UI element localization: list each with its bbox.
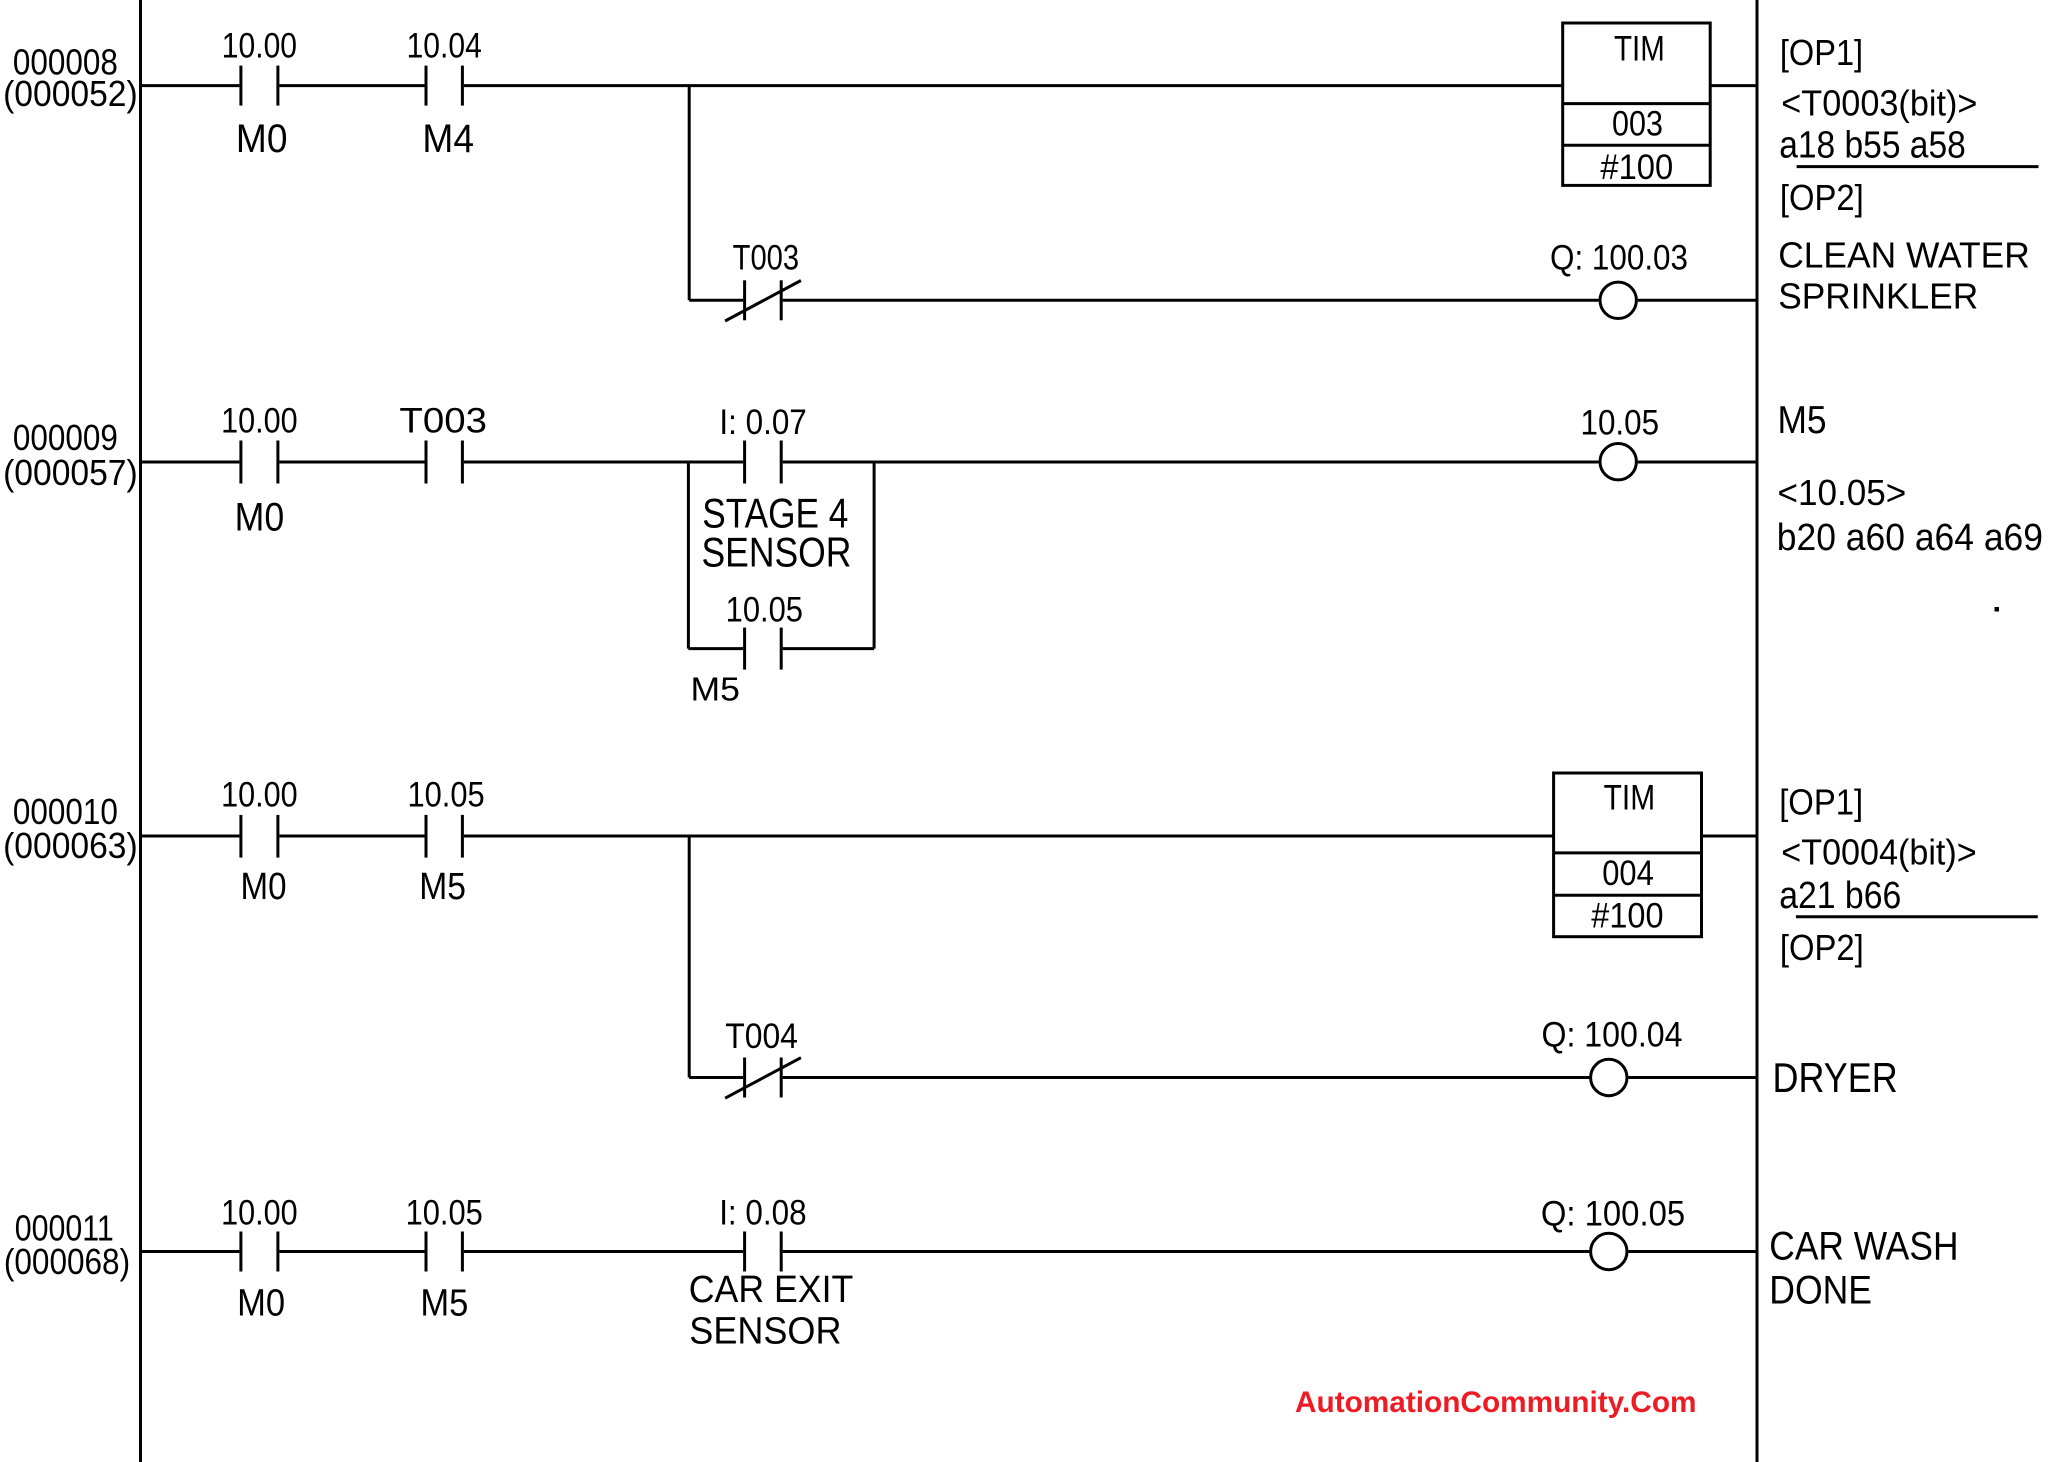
svg-text:003: 003 — [1612, 104, 1663, 143]
svg-text:#100: #100 — [1600, 148, 1673, 187]
stray dot — [1995, 607, 2000, 612]
svg-text:[OP1]: [OP1] — [1780, 32, 1863, 73]
svg-text:<10.05>: <10.05> — [1778, 472, 1907, 513]
wire rung1 coil to right rail — [1638, 299, 1757, 302]
svg-text:10.05: 10.05 — [1581, 404, 1660, 443]
svg-text:M0: M0 — [237, 1282, 285, 1324]
coil 10.05 M5 rung2 — [1600, 444, 1636, 480]
wire rung4 coil to right rail — [1628, 1250, 1757, 1253]
contact 10.05 M5 rung2 parallel (NO) — [743, 628, 746, 670]
wire rung3 branch horizontal to T004 — [689, 1076, 743, 1079]
svg-text:M0: M0 — [236, 117, 288, 161]
left power rail — [139, 0, 142, 1462]
wire rung3 between contacts — [279, 835, 424, 838]
svg-text:a21 b66: a21 b66 — [1779, 875, 1901, 917]
wire rung3 coil to right rail — [1628, 1076, 1757, 1079]
wire rung2 parallel branch left vertical — [687, 462, 690, 649]
svg-text:[OP2]: [OP2] — [1780, 177, 1864, 218]
coil Q: 100.04 DRYER — [1591, 1059, 1627, 1095]
svg-text:10.00: 10.00 — [221, 776, 298, 815]
wire rung4 contact to coil Q100.05 — [783, 1250, 1590, 1253]
underline OP divider rung3 — [1796, 915, 2038, 918]
svg-text:M0: M0 — [241, 866, 287, 908]
svg-text:T003: T003 — [399, 401, 487, 440]
svg-text:10.04: 10.04 — [407, 27, 482, 66]
wire rung2 parallel branch right vertical — [873, 462, 876, 649]
contact T004 rung3 (NC) — [743, 1058, 746, 1098]
svg-text:SENSOR: SENSOR — [702, 529, 852, 576]
svg-text:T003: T003 — [733, 239, 800, 278]
svg-text:M5: M5 — [1778, 399, 1827, 442]
svg-text:10.00: 10.00 — [222, 27, 297, 66]
wire rung3 left-rail to contact 10.00 — [141, 835, 240, 838]
contact I: 0.08 CAR EXIT SENSOR rung4 (NO) — [743, 1232, 746, 1272]
wire rung2 parallel branch bottom right segment — [783, 647, 874, 650]
svg-text:DRYER: DRYER — [1773, 1054, 1898, 1101]
svg-text:10.05: 10.05 — [406, 1194, 483, 1233]
wire rung1 segment left-rail to contact 10.00 — [141, 84, 240, 87]
underline OP divider rung1 — [1797, 165, 2039, 168]
wire rung1 between contacts — [279, 84, 424, 87]
svg-text:AutomationCommunity.Com: AutomationCommunity.Com — [1295, 1386, 1697, 1419]
svg-text:<T0004(bit)>: <T0004(bit)> — [1781, 832, 1976, 873]
svg-text:10.00: 10.00 — [221, 1194, 298, 1233]
svg-text:M5: M5 — [691, 671, 740, 708]
contact 10.00 M0 rung3 (NO) — [239, 815, 242, 858]
svg-text:b20 a60 a64 a69: b20 a60 a64 a69 — [1777, 517, 2043, 559]
svg-text:(000068): (000068) — [4, 1241, 130, 1282]
svg-text:M5: M5 — [419, 866, 466, 908]
svg-text:SENSOR: SENSOR — [689, 1311, 841, 1353]
timer TIM2 box rung3 — [1554, 773, 1702, 937]
svg-text:TIM: TIM — [1614, 30, 1665, 69]
svg-text:M4: M4 — [422, 117, 474, 161]
contact 10.04 M4 rung1 (NO) — [425, 66, 428, 106]
svg-text:[OP1]: [OP1] — [1779, 781, 1863, 822]
wire rung1 T003 to coil Q100.03 — [783, 299, 1599, 302]
svg-text:DONE: DONE — [1769, 1269, 1872, 1313]
svg-text:004: 004 — [1602, 854, 1654, 893]
wire rung4 contact to contact I: 0.08 — [464, 1250, 743, 1253]
svg-text:SPRINKLER: SPRINKLER — [1778, 275, 1978, 316]
contact T003 rung1 (NC) — [743, 280, 746, 320]
right power rail — [1756, 0, 1759, 1462]
contact 10.05 M5 rung3 (NO) — [425, 815, 428, 858]
contact T003 rung2 (NO) — [425, 441, 428, 484]
svg-text:Q: 100.05: Q: 100.05 — [1541, 1195, 1685, 1234]
wire rung2 to coil 10.05 — [874, 461, 1599, 464]
contact 10.05 M5 rung4 (NO) — [425, 1232, 428, 1272]
svg-text:CAR EXIT: CAR EXIT — [689, 1269, 854, 1311]
wire rung2 between contacts — [279, 461, 424, 464]
svg-text:<T0003(bit)>: <T0003(bit)> — [1781, 82, 1977, 123]
contact 10.00 M0 rung2 (NO) — [239, 441, 242, 484]
svg-text:I: 0.07: I: 0.07 — [719, 403, 806, 442]
svg-text:CAR WASH: CAR WASH — [1769, 1224, 1958, 1268]
wire rung4 left-rail to contact 10.00 — [141, 1250, 240, 1253]
svg-text:Q: 100.04: Q: 100.04 — [1542, 1016, 1683, 1055]
wire rung2 left-rail to contact 10.00 — [141, 461, 240, 464]
svg-text:(000063): (000063) — [3, 825, 138, 866]
svg-text:[OP2]: [OP2] — [1780, 927, 1864, 968]
wire rung2 coil to right rail — [1638, 461, 1757, 464]
contact 10.00 M0 rung4 (NO) — [239, 1232, 242, 1272]
wire rung3 TIM2 to right rail — [1702, 835, 1758, 838]
wire rung1 TIM1 to right rail — [1710, 84, 1757, 87]
wire rung3 T004 to coil Q100.04 — [783, 1076, 1590, 1079]
wire rung1 contact to TIM1 — [464, 84, 1563, 87]
wire rung2 contact to right of parallel box — [783, 461, 874, 464]
coil Q: 100.03 CLEAN WATER SPRINKLER — [1600, 282, 1636, 318]
svg-text:I: 0.08: I: 0.08 — [719, 1194, 806, 1233]
svg-text:CLEAN WATER: CLEAN WATER — [1778, 235, 2030, 276]
wire rung2 parallel branch bottom left segment — [688, 647, 743, 650]
wire rung3 branch vertical — [688, 836, 691, 1078]
coil Q: 100.05 CAR WASH DONE — [1591, 1233, 1627, 1269]
svg-text:M0: M0 — [235, 496, 285, 540]
svg-text:T004: T004 — [725, 1017, 798, 1056]
svg-text:(000057): (000057) — [3, 452, 138, 493]
svg-text:10.00: 10.00 — [221, 401, 298, 440]
svg-text:TIM: TIM — [1604, 778, 1656, 817]
wire rung1 branch horizontal to T003 — [689, 299, 743, 302]
contact I: 0.07 STAGE 4 SENSOR rung2 (NO) — [743, 441, 746, 484]
wire rung3 contact to TIM2 — [464, 835, 1554, 838]
svg-text:a18 b55 a58: a18 b55 a58 — [1779, 125, 1966, 167]
timer TIM1 box rung1 — [1563, 23, 1711, 185]
svg-text:Q: 100.03: Q: 100.03 — [1550, 239, 1688, 278]
wire rung2 T003 to parallel branch — [464, 461, 743, 464]
svg-text:#100: #100 — [1591, 897, 1663, 936]
svg-text:10.05: 10.05 — [408, 776, 485, 815]
svg-text:M5: M5 — [420, 1282, 468, 1324]
svg-text:10.05: 10.05 — [726, 591, 803, 630]
wire rung4 between contacts — [279, 1250, 424, 1253]
svg-text:(000052): (000052) — [3, 73, 138, 114]
contact 10.00 M0 rung1 (NO) — [239, 66, 242, 106]
wire rung1 branch vertical — [688, 86, 691, 301]
